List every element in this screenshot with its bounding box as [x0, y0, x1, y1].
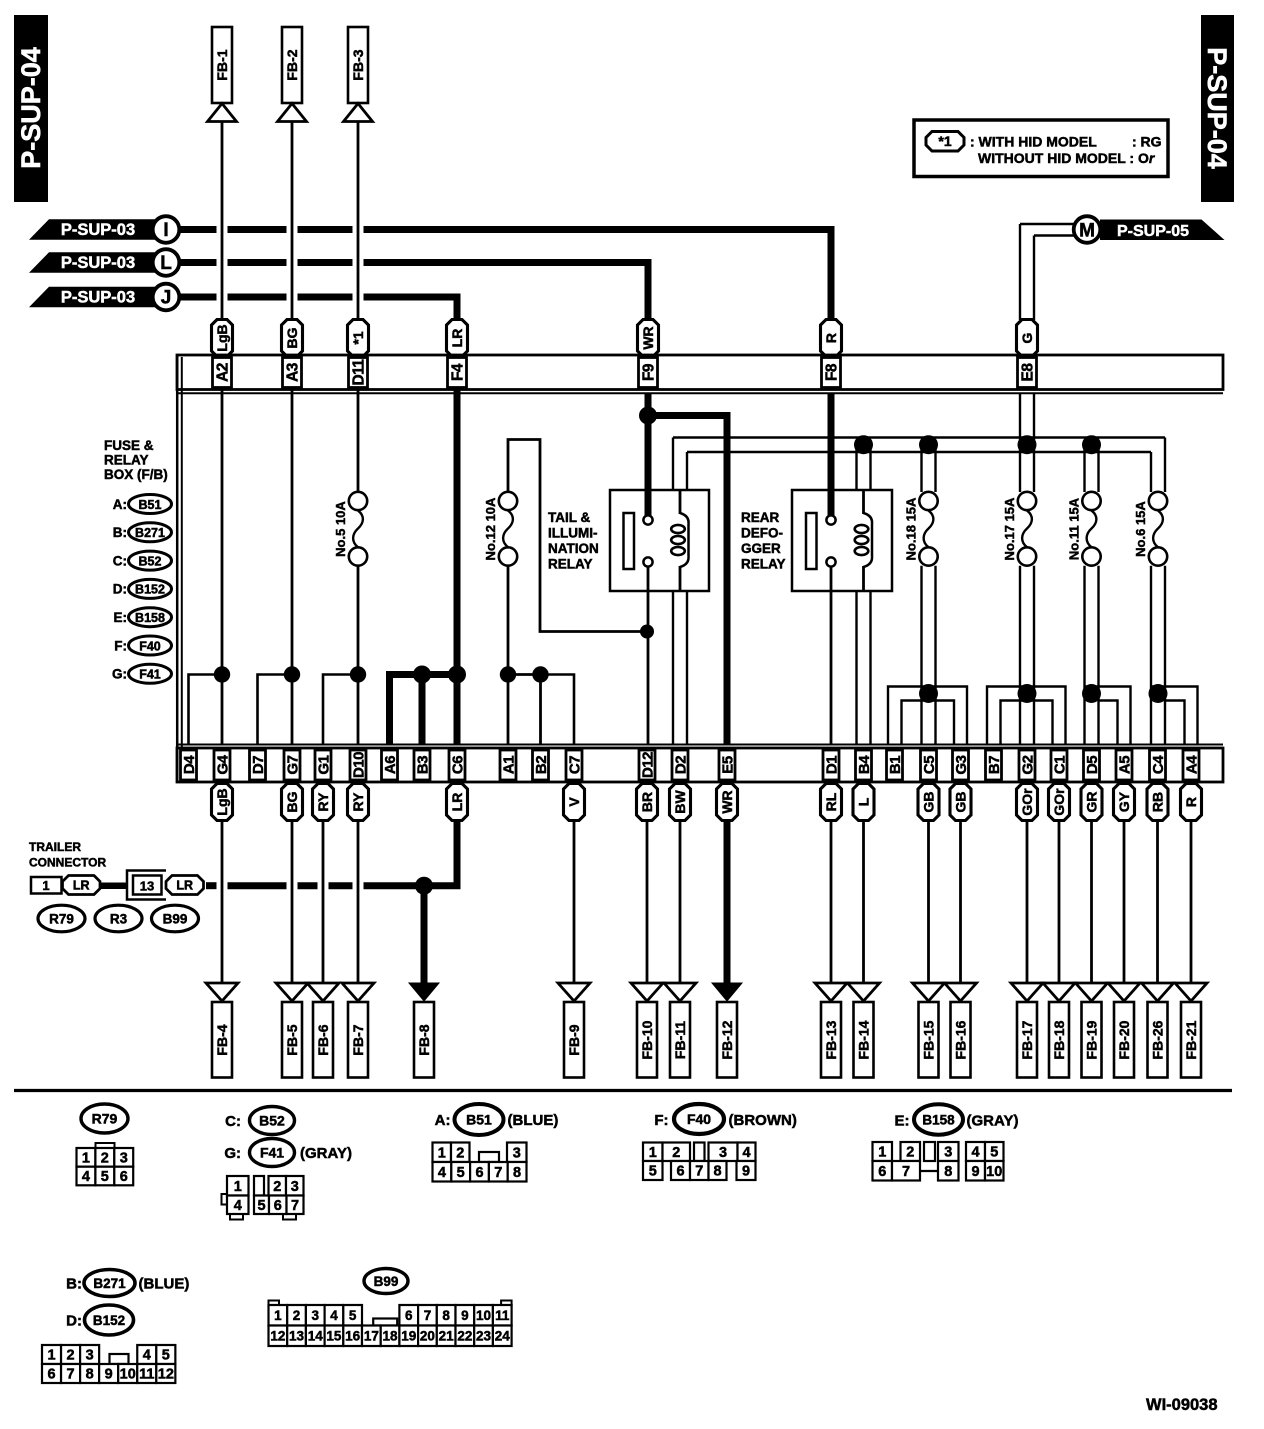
wire GOr down to FB-17	[1026, 821, 1029, 985]
junction dot trailer / FB-8	[415, 877, 433, 895]
wire label LR at trailer pin 13	[166, 876, 204, 895]
svg-text:B:: B:	[113, 525, 127, 540]
wire I (thick) horizontal to F8	[180, 226, 217, 233]
wire label G at top rail	[1017, 320, 1038, 357]
connector ref B99 (pinout)	[364, 1269, 408, 1294]
svg-text:5: 5	[162, 1348, 170, 1364]
junction dot fuse No.6 output	[1149, 684, 1168, 703]
wire label RY below rail at FB-6 column	[313, 784, 334, 821]
pin E8 on top rail	[1018, 358, 1037, 388]
pin C1 on bottom rail	[1051, 750, 1068, 780]
wire label BG below rail at FB-5 column	[282, 784, 303, 821]
svg-text:4: 4	[971, 1145, 979, 1161]
svg-text:No.18 15A: No.18 15A	[904, 497, 919, 560]
svg-text:F8: F8	[823, 363, 840, 381]
svg-text:(BROWN): (BROWN)	[729, 1112, 797, 1129]
svg-text:No.12 10A: No.12 10A	[483, 497, 498, 560]
fuse No.11 15A	[1067, 492, 1101, 566]
svg-text:FB-20: FB-20	[1116, 1020, 1132, 1059]
wire C6 (thick) down and left to trailer junction	[454, 821, 461, 886]
svg-text:RELAY: RELAY	[741, 557, 786, 572]
svg-text:E8: E8	[1019, 363, 1036, 382]
trailer pin 1 box	[31, 877, 62, 894]
flag P-SUP-03 J (from page P-SUP-03)	[29, 287, 158, 308]
wire label LgB below rail at FB-4 column	[212, 784, 233, 821]
wire bus to defogger coil (hollow)	[855, 445, 857, 491]
connector ref D: B152	[66, 1305, 133, 1335]
svg-text:GGER: GGER	[741, 541, 781, 556]
pin D5 on bottom rail	[1084, 750, 1101, 780]
svg-text:19: 19	[401, 1329, 416, 1344]
pin A4 on bottom rail	[1183, 750, 1200, 780]
svg-text:4: 4	[330, 1308, 338, 1323]
svg-text:REAR: REAR	[741, 510, 780, 525]
svg-text:4: 4	[234, 1198, 242, 1214]
svg-text:A1: A1	[500, 756, 517, 774]
svg-text:6: 6	[120, 1169, 128, 1185]
svg-text:23: 23	[476, 1329, 492, 1344]
junction dot bus / fuse No.11	[1082, 435, 1101, 454]
svg-text:3: 3	[944, 1145, 952, 1161]
svg-text:1: 1	[42, 878, 49, 893]
wire label V below rail at FB-9 column	[564, 784, 585, 821]
wire branch to D7	[258, 675, 293, 746]
pin A5 on bottom rail	[1116, 750, 1133, 780]
wire RL down to FB-13	[830, 821, 833, 985]
connector ref B99 (trailer)	[152, 905, 199, 932]
wire FB-2 vertical	[291, 122, 294, 321]
pin G4 on bottom rail	[214, 750, 231, 780]
wire label GOr below rail at FB-17 column	[1017, 784, 1038, 821]
svg-text:B7: B7	[986, 756, 1003, 774]
svg-text:13: 13	[289, 1329, 305, 1344]
wire from fuse No.5 down	[357, 566, 360, 745]
terminal FB-5	[282, 1002, 302, 1078]
svg-text:P-SUP-03: P-SUP-03	[61, 221, 135, 239]
svg-text:L: L	[160, 253, 172, 274]
svg-text:E:: E:	[895, 1113, 910, 1130]
svg-text:FB-5: FB-5	[284, 1024, 300, 1055]
svg-text:6: 6	[47, 1367, 55, 1383]
connector circle M	[1074, 216, 1101, 243]
svg-text:10: 10	[986, 1164, 1002, 1180]
svg-text:G:: G:	[112, 667, 127, 682]
svg-text:1: 1	[438, 1145, 446, 1161]
terminal FB-18	[1049, 1002, 1069, 1078]
pin A2 on top rail	[213, 358, 232, 388]
arrow into FB-5	[276, 983, 308, 1001]
pin A3 on top rail	[283, 358, 302, 388]
terminal FB-21	[1181, 1002, 1201, 1078]
svg-text:5: 5	[990, 1145, 998, 1161]
pin E5 on bottom rail	[719, 750, 736, 780]
svg-text:D12: D12	[639, 752, 656, 778]
svg-text:LR: LR	[449, 793, 465, 812]
svg-text:WI-09038: WI-09038	[1146, 1396, 1218, 1414]
svg-text:: WITH HID MODEL: : WITH HID MODEL	[970, 134, 1097, 150]
svg-text:FB-16: FB-16	[952, 1020, 968, 1059]
arrow into FB-8 (solid)	[409, 983, 439, 1001]
wire E5 (thick) down to FB-12	[724, 821, 731, 985]
arrow into FB-4	[206, 983, 238, 1001]
arrow into FB-15	[913, 983, 945, 1001]
arrow into FB-26	[1142, 983, 1174, 1001]
pin D12 on bottom rail	[639, 750, 656, 780]
svg-text:C4: C4	[1150, 755, 1167, 774]
svg-text:1: 1	[47, 1348, 55, 1364]
connector ref A: B51 (BLUE)	[435, 1104, 559, 1135]
svg-text:B158: B158	[922, 1113, 955, 1128]
terminal FB-19	[1082, 1002, 1102, 1078]
junction dot A2/D4/G4	[214, 666, 230, 682]
svg-text:G7: G7	[284, 755, 301, 774]
connector ref R79 (trailer)	[38, 905, 85, 932]
svg-text:3: 3	[291, 1179, 299, 1195]
pin G7 on bottom rail	[284, 750, 301, 780]
svg-text:G:: G:	[224, 1145, 241, 1162]
svg-text:R: R	[823, 333, 839, 343]
legend note box *1 HID model	[914, 120, 1168, 177]
connector ref A: B51	[113, 495, 172, 514]
terminal FB-7	[348, 1002, 368, 1078]
wire label RB below rail at FB-26 column	[1147, 784, 1168, 821]
svg-text:5: 5	[649, 1164, 657, 1180]
connector circle L	[153, 249, 180, 276]
svg-text:G2: G2	[1019, 755, 1036, 774]
svg-text:24: 24	[495, 1329, 511, 1344]
wire bus to fuse No.18 (hollow)	[920, 445, 922, 492]
svg-text:F:: F:	[654, 1112, 668, 1129]
branch frame No.6 to A4 (hollow)	[1152, 687, 1198, 746]
wire label *1 at top rail	[348, 320, 369, 357]
arrow into FB-14	[848, 983, 880, 1001]
connector pinout B99	[269, 1301, 512, 1347]
arrow into FB-6	[307, 983, 339, 1001]
svg-text:RELAY: RELAY	[104, 453, 149, 468]
svg-text:6: 6	[878, 1164, 886, 1180]
svg-text:8: 8	[513, 1165, 521, 1181]
terminal FB-11	[670, 1002, 690, 1078]
pin F9 on top rail	[639, 358, 658, 388]
svg-text:C1: C1	[1051, 756, 1068, 774]
svg-text:7: 7	[695, 1164, 703, 1180]
svg-text:R3: R3	[110, 912, 128, 927]
svg-text:F40: F40	[139, 639, 161, 653]
svg-text:A6: A6	[382, 756, 399, 774]
svg-text:8: 8	[86, 1367, 94, 1383]
svg-text:D2: D2	[672, 756, 689, 774]
wire bus to fuse No.11 (hollow)	[1083, 445, 1085, 492]
wire FB-8 (thick) down	[421, 886, 428, 984]
svg-text:16: 16	[345, 1329, 361, 1344]
svg-text:1: 1	[274, 1308, 282, 1323]
arrow into FB-7	[342, 983, 374, 1001]
svg-text:No.6 15A: No.6 15A	[1133, 501, 1148, 557]
arrow into FB-11	[664, 983, 696, 1001]
junction dot B3 branch	[413, 666, 431, 684]
svg-text:RY: RY	[315, 792, 331, 812]
connector ref D: B152	[113, 579, 172, 598]
svg-text:FB-4: FB-4	[214, 1024, 230, 1055]
svg-text:7: 7	[902, 1164, 910, 1180]
connector pinout F40	[643, 1143, 756, 1181]
pin D4 on bottom rail	[181, 750, 198, 780]
wire fuse No.6 output (hollow) to junction	[1150, 566, 1152, 745]
label TAIL & ILLUMINATION RELAY	[548, 510, 599, 572]
svg-text:LR: LR	[449, 329, 465, 348]
svg-text:1: 1	[234, 1179, 242, 1195]
terminal FB-8	[414, 1002, 434, 1078]
wire label RL below rail at FB-13 column	[821, 784, 842, 821]
tail relay coil L1	[671, 491, 688, 591]
terminal FB-2	[282, 27, 302, 103]
svg-text:B158: B158	[135, 611, 165, 625]
svg-text:G3: G3	[953, 755, 970, 774]
svg-text:22: 22	[457, 1329, 472, 1344]
svg-text:D:: D:	[113, 582, 127, 597]
arrow into FB-16	[945, 983, 977, 1001]
pin C6 on bottom rail	[449, 750, 466, 780]
svg-text:F:: F:	[114, 638, 127, 653]
connector ref G: F41	[112, 664, 172, 683]
svg-text:RL: RL	[823, 792, 839, 811]
svg-text:2: 2	[273, 1179, 281, 1195]
svg-text:BW: BW	[672, 790, 688, 814]
svg-text:B152: B152	[135, 583, 165, 597]
svg-text:FB-13: FB-13	[823, 1020, 839, 1059]
svg-text:D5: D5	[1084, 756, 1101, 774]
svg-text:GY: GY	[1116, 791, 1132, 812]
svg-text:P-SUP-03: P-SUP-03	[61, 254, 135, 272]
svg-text:A5: A5	[1116, 756, 1133, 774]
svg-text:R79: R79	[49, 912, 74, 927]
wire tail relay coil to D2 (hollow)	[672, 591, 674, 745]
svg-text:10: 10	[120, 1367, 136, 1383]
svg-text:WITHOUT HID MODEL : Or: WITHOUT HID MODEL : Or	[978, 150, 1156, 166]
svg-text:BG: BG	[284, 791, 300, 812]
svg-text:B51: B51	[466, 1112, 492, 1128]
svg-text:C7: C7	[566, 756, 583, 774]
arrow into FB-20	[1108, 983, 1140, 1001]
arrow into FB-18	[1043, 983, 1075, 1001]
wire RB down to FB-26	[1156, 821, 1159, 985]
wire label GOr below rail at FB-18 column	[1049, 784, 1070, 821]
svg-text:5: 5	[257, 1198, 265, 1214]
pin B4 on bottom rail	[856, 750, 873, 780]
wire label LR below rail at C6	[447, 784, 468, 821]
svg-text:B152: B152	[93, 1313, 125, 1328]
connector pinout R79	[77, 1104, 134, 1185]
svg-text:TRAILER: TRAILER	[29, 840, 81, 854]
wire fuse No.18 output (hollow) to junction	[920, 566, 922, 745]
svg-text:7: 7	[67, 1367, 75, 1383]
svg-text:NATION: NATION	[548, 541, 599, 556]
svg-text:1: 1	[878, 1145, 886, 1161]
svg-text:FB-15: FB-15	[920, 1020, 936, 1059]
svg-text:P-SUP-05: P-SUP-05	[1117, 223, 1189, 240]
junction dot A1	[500, 666, 516, 682]
branch frame No.17 to B7 and C1 (hollow)	[987, 687, 1066, 746]
flag P-SUP-03 I (from page P-SUP-03)	[29, 219, 158, 240]
wire label GY below rail at FB-20 column	[1114, 784, 1135, 821]
terminal FB-4	[212, 1002, 232, 1078]
pin D7 on bottom rail	[250, 750, 267, 780]
svg-text:5: 5	[457, 1165, 465, 1181]
wire label BW below rail at FB-11 column	[670, 784, 691, 821]
pin D11 on top rail	[349, 358, 368, 388]
label FUSE & RELAY BOX (F/B)	[104, 438, 168, 482]
svg-text:M: M	[1079, 221, 1095, 242]
svg-text:F4: F4	[449, 363, 466, 381]
defogger relay coil L2	[855, 491, 872, 591]
svg-text:2: 2	[293, 1308, 301, 1323]
connector ref C: B52	[113, 551, 172, 570]
junction dot bus / E8 / fuse No.17	[1018, 435, 1037, 454]
svg-text:2: 2	[906, 1145, 914, 1161]
arrow into FB-1	[208, 104, 237, 122]
wire label WR at top rail	[638, 320, 659, 357]
svg-text:LR: LR	[73, 878, 90, 892]
svg-text:FB-19: FB-19	[1083, 1020, 1099, 1059]
svg-text:9: 9	[461, 1308, 469, 1323]
wire BG down to FB-5	[291, 821, 294, 985]
wire F8 (thick) down to relay	[828, 394, 835, 516]
wire tail relay contact to D12	[647, 567, 650, 746]
fuse box bottom connector rail	[177, 745, 1223, 783]
wire E5 (thick) branch	[648, 416, 727, 746]
wire GOr down to FB-18	[1058, 821, 1061, 985]
svg-text:1: 1	[649, 1145, 657, 1161]
pin B2 on bottom rail	[533, 750, 550, 780]
svg-text:CONNECTOR: CONNECTOR	[29, 856, 106, 870]
terminal FB-3	[348, 27, 368, 103]
terminal FB-10	[637, 1002, 657, 1078]
svg-text:E:: E:	[114, 610, 128, 625]
svg-text:FB-3: FB-3	[350, 49, 366, 80]
wire GY down to FB-20	[1123, 821, 1126, 985]
connector ref F: F40	[114, 636, 171, 655]
pin G1 on bottom rail	[315, 750, 332, 780]
svg-text:G: G	[1019, 332, 1035, 343]
pin B7 on bottom rail	[986, 750, 1003, 780]
svg-text:A:: A:	[435, 1112, 451, 1129]
connector ref B: B271 (BLUE)	[66, 1270, 189, 1297]
svg-text:12: 12	[158, 1367, 174, 1383]
svg-text:RELAY: RELAY	[548, 557, 593, 572]
wire label L below rail at FB-14 column	[853, 784, 874, 821]
terminal FB-20	[1114, 1002, 1134, 1078]
svg-text:B52: B52	[139, 554, 162, 568]
svg-text:No.5 10A: No.5 10A	[333, 501, 348, 557]
wire GB down to FB-16	[959, 821, 962, 985]
svg-text:D4: D4	[181, 755, 198, 774]
fuse No.5 10A	[333, 492, 367, 566]
svg-text:DEFO-: DEFO-	[741, 526, 783, 541]
junction dot fuse No.11 output	[1082, 684, 1101, 703]
connector ref F: F40 (BROWN)	[654, 1104, 797, 1134]
wire J (thick) horizontal to F4	[180, 294, 217, 301]
svg-text:3: 3	[86, 1348, 94, 1364]
wire fuse No.11 output (hollow) to junction	[1083, 566, 1085, 745]
svg-text:6: 6	[405, 1308, 413, 1323]
svg-text:ILLUMI-: ILLUMI-	[548, 526, 598, 541]
power bus (hollow wire) from E8 to fuses	[673, 438, 1165, 493]
pin F8 on top rail	[822, 358, 841, 388]
fuse box left border (double line)	[177, 355, 182, 782]
fuse No.6 15A	[1133, 492, 1167, 566]
svg-text:FB-8: FB-8	[416, 1024, 432, 1055]
svg-text:R79: R79	[92, 1111, 118, 1127]
pin G3 on bottom rail	[953, 750, 970, 780]
svg-text:D7: D7	[250, 756, 267, 774]
wire label R below rail at FB-21 column	[1181, 784, 1202, 821]
wire label LgB at top rail	[212, 320, 233, 357]
svg-text:BG: BG	[284, 327, 300, 348]
label REAR DEFOGGER RELAY	[741, 510, 786, 572]
terminal FB-16	[951, 1002, 971, 1078]
wire label R at top rail	[821, 320, 842, 357]
svg-text:TAIL &: TAIL &	[548, 510, 590, 525]
pin A1 on bottom rail	[500, 750, 517, 780]
pin C5 on bottom rail	[921, 750, 938, 780]
wire trailer connector LR (thick) horizontal	[206, 882, 217, 889]
relay REAR DEFOGGER RELAY	[792, 490, 892, 591]
wire label RY below rail at FB-7 column	[348, 784, 369, 821]
svg-text:17: 17	[364, 1329, 379, 1344]
junction dot A3/D7/G7	[284, 666, 300, 682]
pin D10 on bottom rail	[350, 750, 367, 780]
wire GB down to FB-15	[927, 821, 930, 985]
wire from A2 down	[221, 390, 224, 746]
svg-text:FB-6: FB-6	[315, 1024, 331, 1055]
svg-text:6: 6	[274, 1198, 282, 1214]
wire branch to G1	[323, 675, 358, 746]
svg-text:12: 12	[270, 1329, 285, 1344]
svg-text:RY: RY	[350, 792, 366, 812]
arrow into FB-10	[631, 983, 663, 1001]
section separator line	[14, 1089, 1232, 1092]
svg-text:2: 2	[101, 1151, 109, 1167]
svg-text:3: 3	[311, 1308, 319, 1323]
wire BR down to FB-10	[646, 821, 649, 985]
wire branch to D4	[189, 675, 223, 746]
pin F4 on top rail	[448, 358, 467, 388]
wire from fuse No.12 down to A1	[507, 566, 510, 745]
svg-text:WR: WR	[640, 326, 656, 349]
wire L (thick) horizontal to F9	[180, 259, 217, 266]
svg-text:7: 7	[424, 1308, 432, 1323]
svg-text:FB-10: FB-10	[639, 1020, 655, 1059]
svg-text:FB-26: FB-26	[1149, 1020, 1165, 1059]
svg-text:3: 3	[513, 1145, 521, 1161]
svg-text:GB: GB	[952, 792, 968, 813]
wire FB-3 vertical	[357, 122, 360, 321]
svg-text:11: 11	[139, 1367, 154, 1383]
svg-text:FB-1: FB-1	[214, 49, 230, 80]
svg-text:11: 11	[495, 1308, 510, 1323]
wire defogger coil to B4 (hollow)	[855, 591, 857, 745]
svg-text:2: 2	[672, 1145, 680, 1161]
svg-text:L: L	[855, 797, 871, 806]
svg-text:RB: RB	[1149, 792, 1165, 812]
svg-text:P-SUP-04: P-SUP-04	[16, 47, 46, 169]
fuse box top connector rail	[177, 355, 1223, 393]
terminal FB-13	[821, 1002, 841, 1078]
pin D1 on bottom rail	[823, 750, 840, 780]
fuse No.18 15A	[904, 492, 938, 566]
svg-text:FUSE &: FUSE &	[104, 438, 154, 453]
arrow into FB-21	[1175, 983, 1207, 1001]
